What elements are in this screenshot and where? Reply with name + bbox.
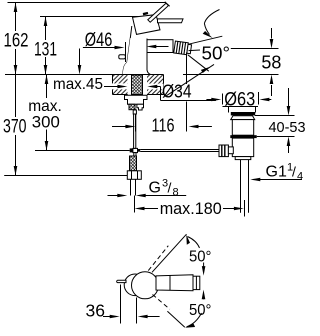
pop-up waste: o-ring band: [230, 135, 256, 138]
cartridge cap (tilted): [133, 15, 161, 35]
svg-text:max.180: max.180: [160, 200, 222, 218]
threaded pull-rod section below nut: [129, 104, 135, 110]
svg-text:4: 4: [297, 171, 303, 183]
faucet body right edge: [147, 39, 151, 75]
svg-text:/: /: [168, 180, 172, 196]
svg-text:40-53: 40-53: [269, 120, 306, 136]
svg-text:Ø63: Ø63: [224, 90, 255, 111]
dimension 116: [135, 115, 137, 132]
small drop arrow from Ø46 underline to counter: [79, 49, 81, 66]
lower swing arc arrowhead: [185, 324, 195, 328]
svg-text:50°: 50°: [189, 249, 212, 266]
faucet rear edge with pull-rod knob: [125, 42, 127, 62]
pop-up waste: upper body: [232, 120, 253, 136]
pull rod tick on cap: [143, 13, 148, 14]
hole right edge white band for dimension arrow: [147, 84, 164, 90]
lower 50-degree swing line (dashed near body): [153, 295, 170, 310]
threaded hose connector section: [130, 156, 137, 171]
upper 50-degree swing line (dashed near body): [148, 246, 168, 271]
faucet base bottom: [123, 74, 151, 76]
lower 50-degree swing line (solid): [167, 311, 184, 327]
horizontal linkage rod to pop-up waste: [140, 149, 219, 151]
linkage junction: [130, 148, 133, 152]
lower 50-degree leader line with arrowhead: [166, 64, 215, 96]
counter slab hatched left part: [113, 75, 128, 95]
svg-text:36: 36: [86, 301, 106, 321]
body main circle: [132, 272, 159, 299]
aerator extension line down: [186, 53, 188, 85]
counter slab left edge: [112, 75, 114, 95]
pop-up waste: lower body: [232, 138, 253, 157]
tail pipe extension line: [244, 200, 246, 217]
svg-text:370: 370: [3, 117, 27, 138]
58 top reference line: [189, 49, 201, 52]
pull rod (top view): [117, 280, 126, 282]
faucet body outline: [123, 26, 132, 75]
svg-text:G1: G1: [266, 164, 287, 181]
dimension 36 arrows: [103, 316, 111, 318]
top reference line (lever raised height): [8, 2, 167, 4]
svg-text:max.45: max.45: [53, 76, 103, 93]
svg-text:Ø34: Ø34: [162, 81, 192, 102]
dimension line 162/370: [15, 3, 17, 32]
370 bottom reference line (hose end): [4, 175, 127, 177]
svg-text:50°: 50°: [189, 302, 212, 319]
pop-up waste: clamp knob (ribbed): [219, 145, 228, 157]
lower 50-degree swivel line: [188, 55, 209, 71]
counter slab bottom edges: [113, 94, 128, 96]
svg-text:300: 300: [32, 113, 60, 131]
pull rod: [134, 110, 136, 149]
max.300 bottom reference line: [35, 150, 130, 152]
extension line below hose: [134, 196, 136, 213]
dimension line max.300: [46, 75, 48, 99]
body small circle (left): [124, 274, 146, 296]
reference line lever horizontal: [40, 16, 156, 18]
lever arm (top view): [156, 275, 193, 291]
spout housing: [147, 40, 173, 53]
upper 50-degree leader arc with arrowhead: [204, 10, 219, 24]
pop-up waste: shoulder step: [235, 157, 251, 160]
max.45 leader arrow into counter: [104, 83, 128, 89]
dimension Ø63: [206, 99, 212, 101]
lever end cap: [193, 276, 200, 289]
upper 50-degree swing line (solid): [152, 234, 187, 272]
rod below junction: [134, 153, 136, 156]
dimension 40-53 reference lines: [255, 115, 295, 117]
upper 50-degree swivel line: [188, 36, 222, 44]
dimension 36 extension lines: [120, 285, 122, 324]
pop-up waste: plug rim dark band: [231, 112, 255, 115]
dimension max.180: [135, 207, 145, 211]
svg-text:131: 131: [34, 40, 57, 61]
dimension 58 arrows: [271, 28, 273, 39]
counter slab hatched right part: [147, 75, 164, 95]
faucet body white fill: [123, 38, 151, 74]
svg-text:50°: 50°: [202, 44, 231, 64]
aerator ball joint (ribbed): [174, 41, 192, 55]
58 bottom reference line: [183, 74, 279, 76]
rod end tick: [133, 110, 136, 114]
svg-text:58: 58: [261, 53, 281, 73]
lever horizontal (down position): [158, 19, 184, 23]
G3/8 left arrow: [108, 195, 118, 197]
mounting washer below counter: [125, 95, 148, 104]
upper swing arc: [188, 237, 200, 249]
pop-up pull knob on body: [119, 55, 126, 59]
svg-text:116: 116: [152, 116, 175, 136]
svg-text:8: 8: [173, 187, 179, 199]
lever tip cap: [165, 2, 170, 6]
counter top line: [5, 74, 164, 76]
lever raised: [148, 3, 169, 22]
supply stub below nut: [137, 104, 144, 110]
pop-up waste: flange: [231, 116, 255, 120]
flexible hose: [130, 180, 132, 196]
hose nut: [127, 171, 141, 180]
threaded shank through counter: [132, 75, 143, 95]
pop-up waste: plug top: [228, 107, 230, 113]
lower swing arc: [187, 313, 202, 327]
counter slab right edge: [163, 75, 165, 95]
pop-up waste: clamp stub: [228, 147, 233, 154]
svg-text:max.: max.: [28, 98, 62, 115]
svg-text:G: G: [149, 180, 161, 197]
svg-text:/: /: [292, 164, 296, 180]
dimension 40-53 arrows: [288, 88, 290, 107]
dimension line 131: [45, 17, 47, 41]
pop-up waste: tail pipe G1 1/4: [240, 160, 242, 213]
upper swing arc arrowhead: [186, 235, 190, 245]
svg-text:162: 162: [4, 31, 29, 52]
